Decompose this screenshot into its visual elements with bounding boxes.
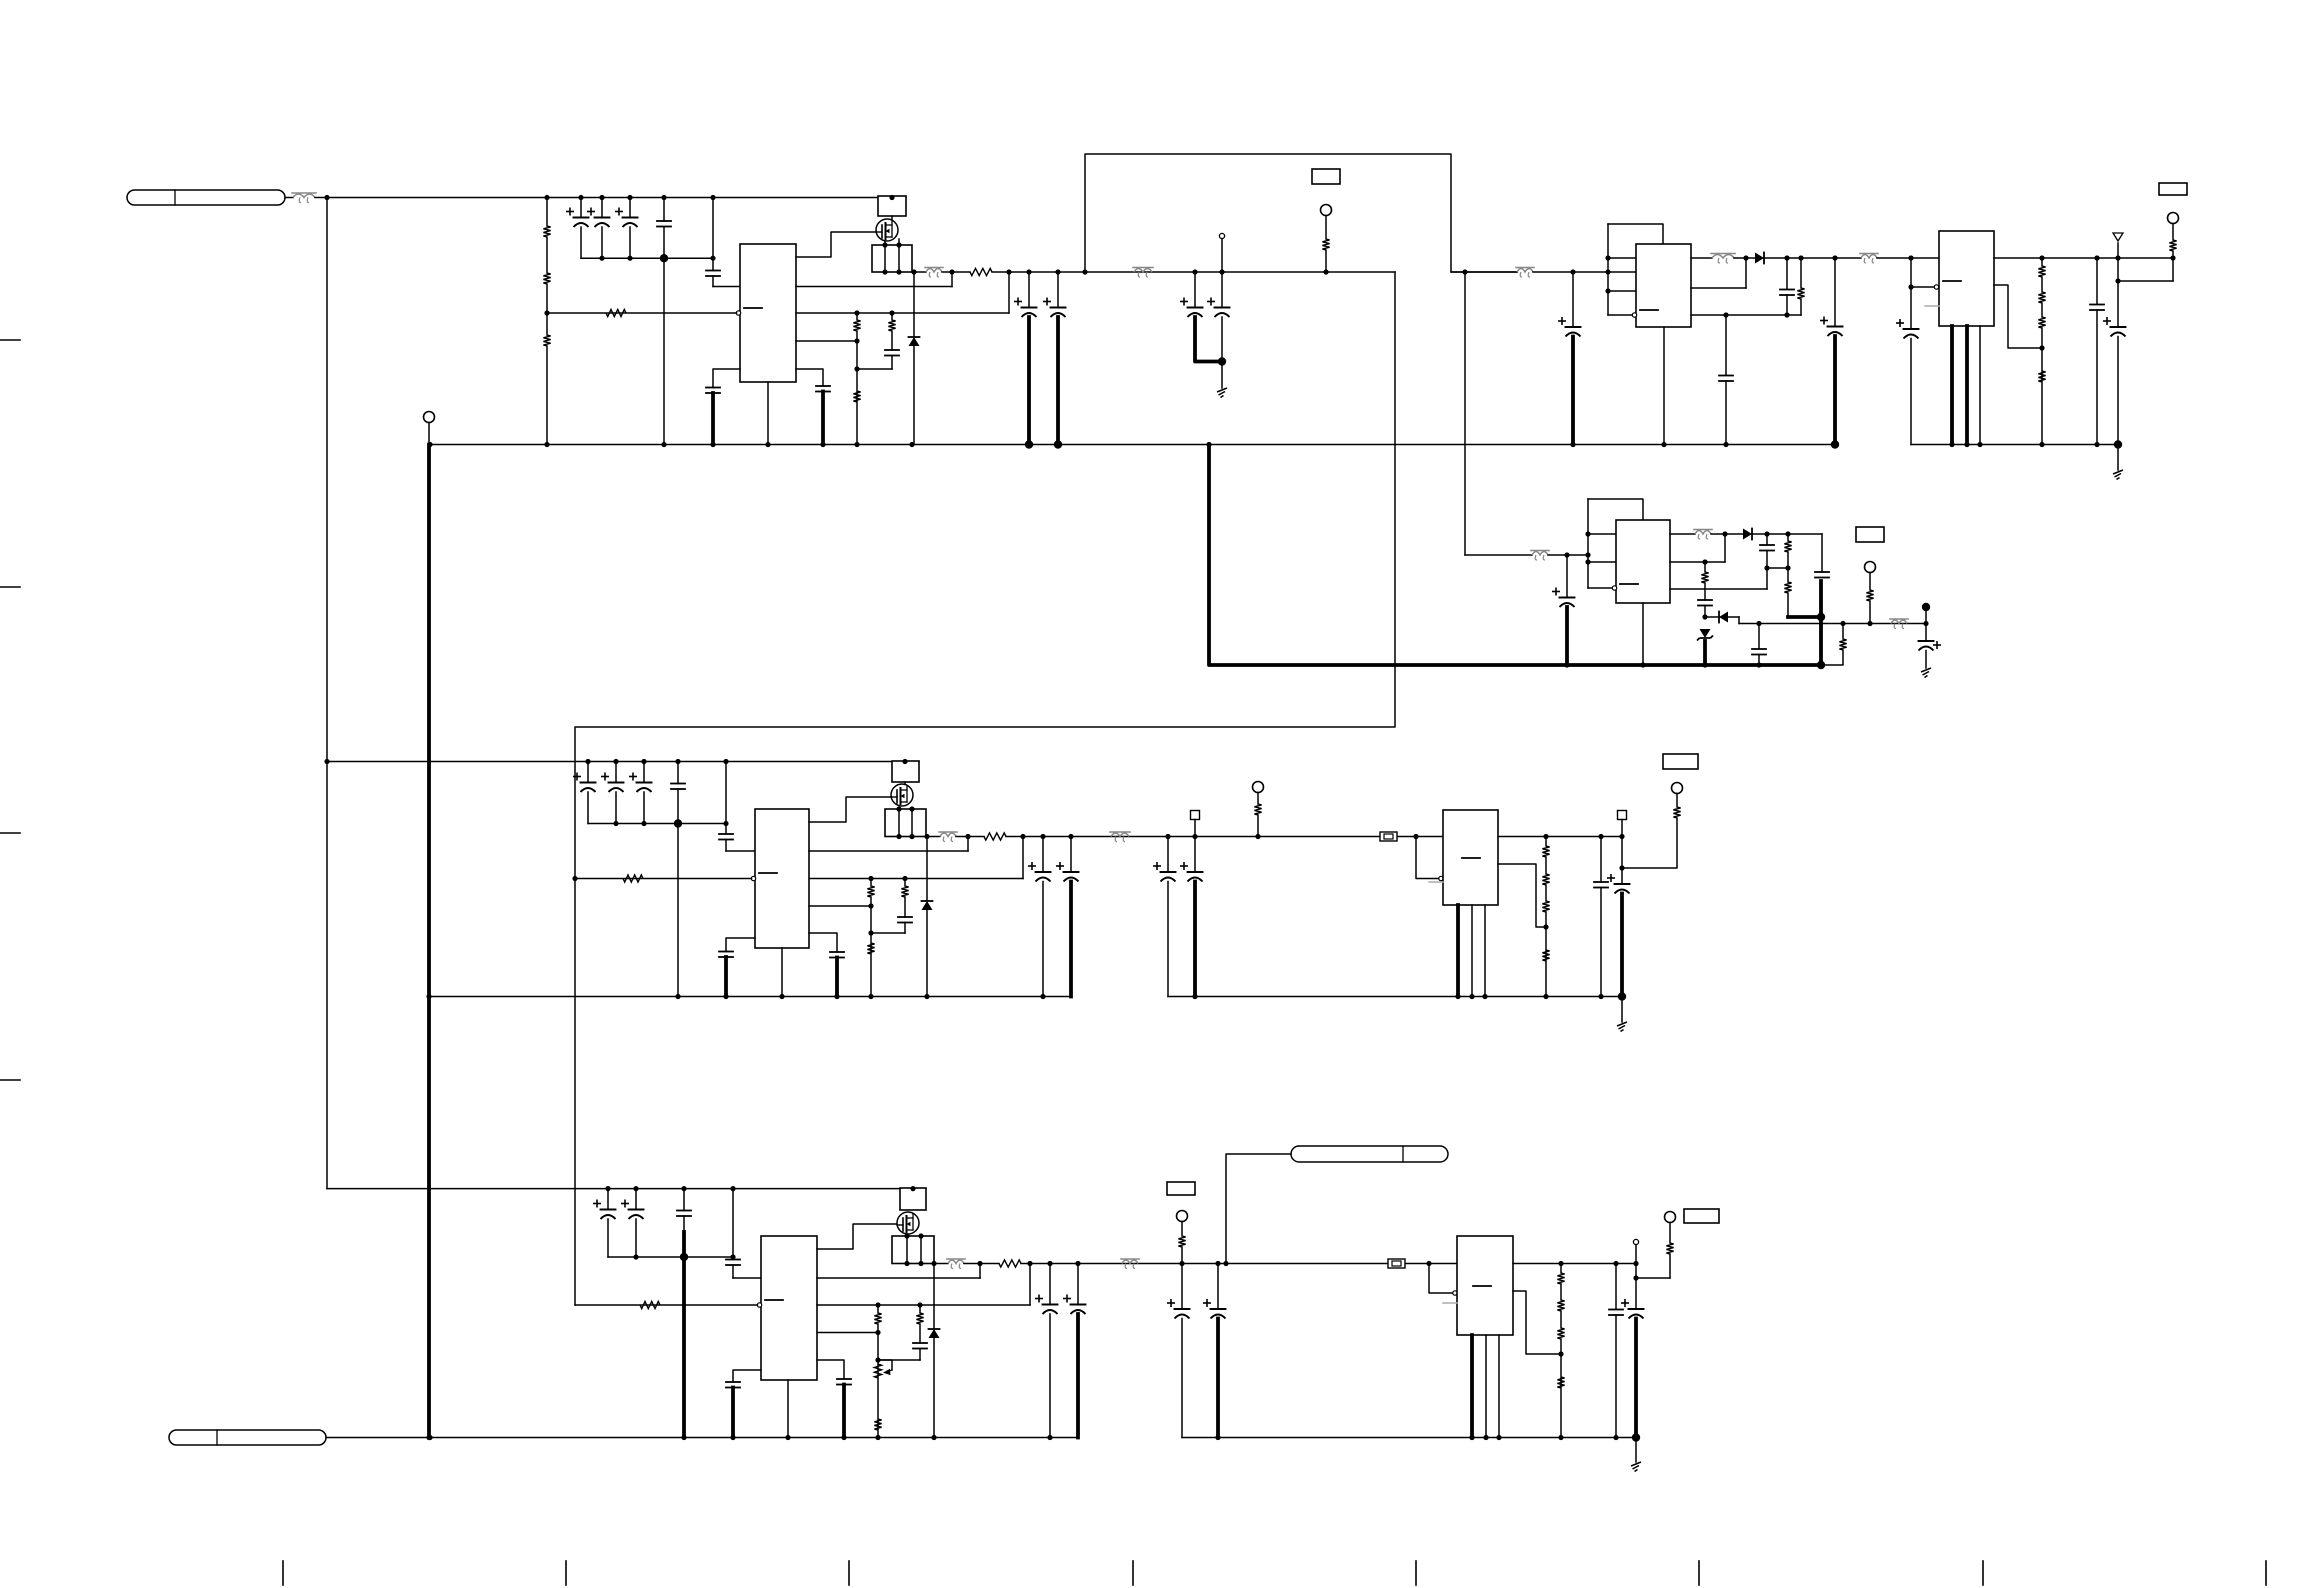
- wire: [2118, 280, 2173, 282]
- IC U3 gnd pin 2: [1965, 326, 1969, 445]
- junction: [896, 806, 901, 811]
- junction: [875, 1330, 880, 1335]
- wire: [683, 1216, 685, 1232]
- resistor R20: [1866, 590, 1873, 601]
- IC U2 (buck regulator): [1636, 244, 1691, 327]
- wire jumper loop: [1085, 154, 1517, 272]
- wire: [1877, 257, 1939, 259]
- ferrite bead FB8: [1121, 1259, 1139, 1269]
- GND rail (row B): [429, 996, 1071, 998]
- junction: [904, 1233, 909, 1238]
- wire: [1325, 250, 1327, 272]
- IC U6 enable path: [1416, 837, 1440, 879]
- wire: [725, 762, 727, 835]
- junction: [949, 269, 954, 274]
- capacitor C51: [1609, 1310, 1623, 1316]
- IC U4 sense line: [1670, 561, 1725, 563]
- wire: [711, 393, 715, 445]
- sense resistor pack RS5 (top): [900, 1188, 926, 1210]
- wire: [2096, 258, 2098, 304]
- wire: [2117, 243, 2119, 258]
- capacitor C2 (electrolytic): [588, 208, 610, 227]
- capacitor C3 (electrolytic): [616, 208, 638, 227]
- IC U2 pin bus: [1607, 224, 1609, 315]
- resistor R16: [1784, 541, 1791, 552]
- wire: [615, 792, 617, 824]
- wire: [1910, 339, 1912, 445]
- wire: [1588, 587, 1613, 589]
- wire: [1588, 561, 1616, 563]
- resistor R24: [867, 943, 874, 954]
- resistor R26: [1254, 804, 1261, 815]
- junction: [1027, 1261, 1032, 1266]
- junction: [1585, 552, 1590, 557]
- wire: [1819, 581, 1823, 665]
- resistor R3: [543, 335, 550, 346]
- wire: [1766, 551, 1768, 569]
- IC U8 gnd pin 3: [1498, 1335, 1500, 1438]
- IC U4 name bar: [1620, 583, 1638, 585]
- capacitor C23: [1698, 600, 1712, 606]
- resistor R14: [2038, 371, 2045, 382]
- diode D6 (catch): [929, 1329, 940, 1338]
- wire: [285, 197, 293, 199]
- IC U5 inverting pin bubble: [751, 876, 755, 880]
- wire: [677, 789, 679, 824]
- diode D1 (catch): [909, 337, 920, 346]
- wire: [677, 762, 679, 784]
- junction: [854, 310, 859, 315]
- wire: [1821, 650, 1843, 665]
- IC U8 gnd pin 2: [1485, 1335, 1487, 1438]
- wire 16V feed to lower rows: [575, 272, 1395, 1305]
- junction: [1192, 269, 1197, 274]
- wire: [1635, 1264, 1637, 1309]
- capacitor C39 (electrolytic): [1608, 875, 1630, 894]
- wire: [1560, 1264, 1562, 1274]
- wire: [1766, 568, 1768, 589]
- wire: [891, 356, 893, 370]
- net label VOUT (flag): [1291, 1146, 1448, 1162]
- junction: [1831, 440, 1839, 448]
- capacitor C1 (electrolytic): [567, 208, 589, 227]
- wire: [1635, 1438, 1637, 1463]
- wire: [1800, 258, 1802, 288]
- resistor R15: [2169, 240, 2176, 251]
- wire: [1008, 272, 1010, 313]
- junction: [1219, 269, 1224, 274]
- junction: [965, 834, 970, 839]
- junction: [426, 994, 431, 999]
- IC U4 (buck regulator): [1616, 520, 1670, 603]
- resistor R6: [853, 320, 860, 331]
- junction: [723, 994, 728, 999]
- wire: [726, 938, 755, 952]
- wire: [1925, 608, 1927, 624]
- wire: [1022, 837, 1024, 879]
- wire: [1703, 641, 1707, 665]
- junction: [1047, 1435, 1052, 1440]
- junction: [1068, 834, 1073, 839]
- wire SW node: [926, 836, 940, 838]
- resistor R17: [1784, 582, 1791, 593]
- IC comp pin line: [796, 340, 857, 342]
- wire: [1787, 552, 1789, 568]
- junction: [1798, 255, 1803, 260]
- junction: [1055, 269, 1060, 274]
- wire: [767, 382, 769, 445]
- IC U2 sense line: [1691, 287, 1746, 289]
- resistor R5: [970, 268, 992, 275]
- junction: [1840, 621, 1845, 626]
- feedback line right: [796, 312, 1009, 314]
- junction: [427, 442, 432, 447]
- feedback line right: [809, 878, 1023, 880]
- junction: [680, 1253, 688, 1261]
- junction: [1585, 531, 1590, 536]
- resistor R35: [874, 1419, 881, 1430]
- junction: [854, 442, 859, 447]
- capacitor C18: [2090, 305, 2104, 311]
- wire: [809, 933, 837, 952]
- wire: [1745, 258, 1747, 288]
- junction: [723, 821, 728, 826]
- IC U4 pin bubble: [1612, 586, 1616, 590]
- capacitor C36 (electrolytic): [1154, 863, 1176, 882]
- wire IC U7 gnd pin: [787, 1380, 789, 1438]
- wire gate drive: [796, 232, 876, 257]
- resistor R36: [916, 1313, 923, 1324]
- wire: [919, 1349, 921, 1361]
- capacitor C22: [1815, 572, 1829, 578]
- wire: [979, 1264, 981, 1279]
- IC U1 name bar: [744, 307, 762, 309]
- wire: [732, 1189, 734, 1260]
- transistor Q2 (MOSFET): [891, 784, 913, 806]
- junction: [633, 1254, 638, 1259]
- wire: [1193, 882, 1197, 997]
- IC U6 gnd pin 1: [1456, 905, 1460, 997]
- wire: [315, 197, 906, 199]
- ground: [1217, 388, 1227, 398]
- junction: [875, 1302, 880, 1307]
- potentiometer arrow: [885, 1370, 893, 1375]
- IC U6 enable bubble: [1439, 876, 1443, 880]
- resistor R10: [1797, 288, 1804, 299]
- IC U6 gray pin stub: [1429, 881, 1443, 883]
- wire: [1077, 1264, 1079, 1305]
- wire: [878, 1359, 920, 1361]
- wire: [891, 216, 893, 219]
- no-connect pin: [1633, 1239, 1638, 1244]
- wire: [1027, 317, 1031, 445]
- wire: [587, 792, 589, 824]
- wire: [1028, 272, 1030, 307]
- label box: [2159, 183, 2187, 195]
- junction: [1722, 531, 1727, 536]
- wire: [1766, 534, 1768, 545]
- wire: [1925, 651, 1927, 669]
- resistor R31: [1673, 807, 1680, 818]
- IC U2 feedback line: [1691, 314, 1801, 316]
- net label GND (return flag): [169, 1430, 326, 1445]
- IC U3 gnd pin 3: [1979, 326, 1981, 445]
- current sense line: [809, 850, 968, 852]
- wire: [1691, 257, 1712, 259]
- junction: [544, 310, 549, 315]
- resistor R38: [1557, 1273, 1564, 1284]
- junction: [875, 1357, 880, 1362]
- resistor R1: [543, 226, 550, 237]
- wire: [1724, 534, 1726, 562]
- IC U3 gray pin stub: [1925, 305, 1939, 307]
- capacitor C30: [719, 834, 733, 840]
- wire: [1167, 882, 1169, 997]
- wire: [904, 923, 906, 934]
- wire: [731, 1388, 735, 1438]
- VIN rail (row B): [327, 761, 919, 763]
- IC U3 gnd pin 1: [1950, 326, 1954, 445]
- wire: [877, 1324, 879, 1438]
- wire: [1786, 258, 1788, 289]
- resistor R27: [1542, 846, 1549, 857]
- wire: [1787, 568, 1789, 582]
- wire: [1621, 837, 1623, 884]
- resistor R21 (feedback): [623, 875, 643, 882]
- wire: [1167, 837, 1169, 872]
- resistor R40: [1557, 1328, 1564, 1339]
- wire: [1560, 1284, 1562, 1300]
- diode D2: [1755, 253, 1764, 264]
- junction: [1817, 661, 1825, 669]
- junction: [1075, 1261, 1080, 1266]
- IC U8 adj pin path: [1513, 1291, 1561, 1354]
- junction: [918, 1233, 923, 1238]
- wire: [1711, 533, 1743, 535]
- junction: [902, 876, 907, 881]
- junction: [889, 310, 894, 315]
- wire gate drive: [817, 1224, 897, 1249]
- junction: [324, 759, 329, 764]
- junction: [1564, 662, 1569, 667]
- IC U3 adj pin path: [1994, 285, 2042, 348]
- junction: [854, 366, 859, 371]
- wire: [913, 346, 915, 445]
- wire: [1057, 272, 1059, 307]
- terminal TP4: [1865, 562, 1876, 573]
- wire: [1704, 562, 1706, 572]
- net label VIN (input flag): [127, 190, 285, 205]
- junction: [1469, 1435, 1474, 1440]
- diode D3: [1743, 529, 1752, 540]
- IC U5 name bar: [759, 872, 777, 874]
- capacitor C4: [657, 221, 671, 227]
- wire: [2117, 445, 2119, 471]
- GND rail (analog): [1911, 444, 2118, 446]
- junction: [896, 242, 901, 247]
- junction: [896, 269, 901, 274]
- resistor R30: [1542, 950, 1549, 961]
- capacitor C40 (electrolytic): [594, 1200, 616, 1219]
- wire: [933, 1264, 935, 1330]
- capacitor C34 (electrolytic): [1029, 863, 1051, 882]
- wire: [1195, 317, 1222, 362]
- junction: [909, 442, 914, 447]
- resistor R22: [984, 833, 1006, 840]
- wire: [919, 1324, 921, 1343]
- wire: [1056, 317, 1060, 445]
- wire: [2117, 258, 2119, 327]
- IC U8 gray pin stub: [1443, 1302, 1457, 1304]
- wire: [884, 245, 886, 272]
- junction: [681, 1435, 686, 1440]
- junction: [1632, 1433, 1640, 1441]
- junction: [785, 1435, 790, 1440]
- wire cap return bus: [581, 257, 713, 259]
- junction: [710, 442, 715, 447]
- wire: [683, 1189, 685, 1211]
- wire to net label: [1226, 1154, 1291, 1264]
- resistor R32 (feedback): [640, 1301, 660, 1308]
- wire: [1833, 336, 1837, 445]
- capacitor C19 (electrolytic): [2104, 318, 2126, 337]
- GND rail (row C): [326, 1437, 1078, 1439]
- IC U3 enable bubble: [1934, 285, 1938, 289]
- wire: [898, 245, 900, 272]
- wire: [1325, 216, 1327, 240]
- wire: [1545, 857, 1547, 874]
- wire: [1548, 554, 1588, 556]
- wire: [951, 272, 953, 287]
- junction: [710, 256, 715, 261]
- wire: [1786, 295, 1788, 315]
- ferrite bead FB2: [1133, 268, 1153, 278]
- capacitor C6: [885, 350, 899, 356]
- wire: [1725, 315, 1727, 375]
- capacitor C28 (electrolytic): [630, 773, 652, 792]
- wire: [2096, 310, 2098, 445]
- junction: [613, 821, 618, 826]
- wire: [1767, 567, 1788, 569]
- capacitor C38: [1594, 882, 1608, 888]
- junction: [909, 834, 914, 839]
- wire: [546, 284, 548, 313]
- junction: [889, 195, 894, 200]
- junction: [1661, 442, 1666, 447]
- wire: [1221, 317, 1223, 362]
- junction: [1977, 442, 1982, 447]
- junction: [599, 195, 604, 200]
- junction: [1413, 834, 1418, 839]
- junction: [1026, 269, 1031, 274]
- wire: [1670, 533, 1695, 535]
- junction: [1723, 442, 1728, 447]
- wire: [2041, 258, 2043, 266]
- capacitor C26 (electrolytic): [574, 773, 596, 792]
- junction: [1082, 269, 1087, 274]
- terminal TP6: [1672, 783, 1683, 794]
- wire: [580, 227, 582, 258]
- wire: [891, 313, 893, 320]
- IC U3 enable line: [1911, 286, 1936, 288]
- wire: [1560, 1339, 1562, 1438]
- fuse F1: [1380, 832, 1397, 841]
- GND rail (row 2): [1209, 445, 1821, 666]
- IC U6 gnd pin 2: [1471, 905, 1473, 997]
- border tick marks (decorative): [0, 340, 2266, 1585]
- junction: [2039, 345, 2044, 350]
- ferrite bead FB3: [1516, 268, 1534, 278]
- junction: [1054, 440, 1062, 448]
- potentiometer wiper: [878, 1360, 892, 1370]
- terminal TP5: [1253, 782, 1264, 793]
- junction: [1558, 1435, 1563, 1440]
- sense resistor pack RS2: [872, 245, 912, 272]
- wire: [1194, 820, 1196, 837]
- junction: [1605, 255, 1610, 260]
- wire: [607, 1219, 609, 1257]
- wire: [821, 392, 825, 445]
- junction: [1564, 552, 1569, 557]
- junction: [904, 1261, 909, 1266]
- wire: [1257, 815, 1259, 837]
- junction: [868, 876, 873, 881]
- capacitor C50 (electrolytic): [1204, 1300, 1226, 1319]
- wire: [1787, 593, 1789, 617]
- IC U8 (linear regulator): [1457, 1236, 1513, 1335]
- resistor R25: [901, 886, 908, 897]
- wire: [1608, 314, 1633, 316]
- wire: [898, 239, 900, 245]
- wire VIN bus: [326, 198, 328, 1189]
- junction: [613, 759, 618, 764]
- junction: [2094, 255, 2099, 260]
- label box: [1856, 527, 1884, 542]
- wire: [1738, 617, 1740, 624]
- wire: [1800, 299, 1802, 315]
- junction: [1192, 994, 1197, 999]
- IC U3 (linear regulator): [1939, 231, 1994, 326]
- wire: [629, 227, 631, 258]
- IC U6 gnd pin 3: [1484, 905, 1486, 997]
- wire: [1572, 272, 1574, 327]
- junction: [1923, 621, 1928, 626]
- capacitor C21: [1760, 545, 1774, 551]
- resistor R7: [853, 391, 860, 402]
- junction: [633, 1186, 638, 1191]
- junction: [779, 994, 784, 999]
- capacitor C46: [726, 1382, 740, 1388]
- wire: [1029, 1264, 1031, 1306]
- resistor R33: [999, 1260, 1021, 1267]
- inductor L3: [1694, 530, 1712, 540]
- capacitor C15: [1719, 376, 1733, 382]
- junction: [909, 806, 914, 811]
- wire: [933, 1338, 935, 1438]
- wire: [964, 1263, 999, 1265]
- junction: [1605, 288, 1610, 293]
- wire: [677, 824, 679, 997]
- wire: [891, 331, 893, 350]
- IC U7 (PWM controller): [761, 1236, 817, 1380]
- resistor R41: [1557, 1377, 1564, 1388]
- wire: [1070, 837, 1072, 872]
- junction: [1215, 1435, 1220, 1440]
- inductor L5: [947, 1259, 965, 1269]
- wire: [1566, 555, 1568, 597]
- wire: [1042, 837, 1044, 872]
- wire: [1621, 820, 1623, 837]
